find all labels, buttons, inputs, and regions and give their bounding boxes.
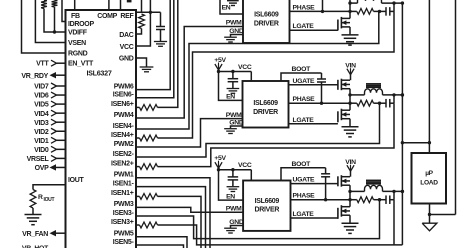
- wire GND: [136, 58, 147, 67]
- svg-text:PHASE: PHASE: [293, 4, 316, 11]
- ground REF cap: [154, 41, 167, 43]
- svg-text:OVP: OVP: [35, 165, 50, 172]
- wire return: [430, 214, 456, 216]
- wire lower source C: [349, 215, 351, 223]
- svg-text:VID7: VID7: [34, 84, 49, 91]
- svg-text:VRSEL: VRSEL: [27, 156, 50, 163]
- wire: [44, 9, 66, 33]
- wire ISEN3+ to phase C sense: [158, 225, 403, 245]
- wire ISEN5-: [136, 245, 184, 248]
- wire VCC B: [219, 71, 252, 73]
- svg-text:VCC: VCC: [238, 162, 252, 169]
- svg-text:VID6: VID6: [34, 93, 49, 100]
- capacitor bootstrap C: [325, 168, 327, 174]
- resistor ISEN3+: [136, 224, 140, 226]
- svg-text:ISEN4-: ISEN4-: [113, 123, 135, 130]
- svg-text:UGATE: UGATE: [293, 78, 316, 85]
- junction blob at top edge: [127, 0, 132, 2]
- svg-text:ISEN1-: ISEN1-: [113, 180, 135, 187]
- sense capacitor B: [385, 99, 387, 108]
- ground lower MOSFET A: [342, 34, 359, 36]
- ground VCC cap A (cut): [227, 0, 239, 2]
- svg-text:VR_FAN: VR_FAN: [22, 231, 48, 238]
- ground lower MOSFET B: [342, 126, 359, 128]
- sense resistor C: [350, 199, 357, 201]
- svg-text:LOAD: LOAD: [420, 180, 438, 187]
- wire FB top: [74, 0, 76, 10]
- wire PWM1: [136, 178, 210, 248]
- resistor ISEN1+: [136, 195, 140, 197]
- upper MOSFET C: [337, 176, 339, 186]
- phase node column C: [349, 185, 351, 207]
- phase node column B: [349, 89, 351, 111]
- wire return rail: [455, 0, 457, 215]
- svg-text:ISEN3+: ISEN3+: [111, 219, 134, 226]
- svg-text:GND: GND: [229, 219, 244, 226]
- driver C ISL6609: [243, 181, 290, 231]
- svg-text:PWM4: PWM4: [114, 112, 134, 119]
- resistor ISEN2+: [136, 166, 140, 168]
- wire GND C: [231, 226, 244, 228]
- wire PWM6: [136, 0, 170, 90]
- svg-text:LGATE: LGATE: [293, 211, 315, 218]
- ground C: [224, 227, 237, 229]
- svg-text:PWM6: PWM6: [114, 83, 134, 90]
- svg-text:IOUT: IOUT: [68, 177, 85, 184]
- capacitor REF: [160, 12, 162, 26]
- svg-text:UGATE: UGATE: [293, 177, 316, 184]
- svg-text:EN: EN: [222, 5, 231, 12]
- inductor C: [350, 190, 365, 192]
- svg-text:+5V: +5V: [214, 57, 226, 64]
- svg-text:VTT: VTT: [36, 61, 49, 68]
- wire VCORE rail: [401, 3, 403, 245]
- svg-text:BOOT: BOOT: [292, 66, 312, 73]
- svg-text:DRIVER: DRIVER: [254, 21, 279, 28]
- svg-text:VID3: VID3: [34, 120, 49, 127]
- svg-text:PWM: PWM: [226, 205, 242, 212]
- phase node column A: [349, 0, 351, 18]
- sense capacitor A: [385, 7, 387, 16]
- svg-text:PHASE: PHASE: [293, 193, 316, 200]
- lower MOSFET C: [337, 208, 339, 219]
- inductor A: [350, 2, 358, 4]
- load uP LOAD: [412, 153, 447, 204]
- svg-text:RGND: RGND: [68, 51, 88, 58]
- svg-text:DRIVER: DRIVER: [254, 206, 279, 213]
- sense resistor A: [350, 10, 357, 12]
- wire ISEN3- to phase C sense: [136, 200, 380, 239]
- svg-text:BOOT: BOOT: [292, 161, 312, 168]
- svg-text:PWM3: PWM3: [114, 201, 134, 208]
- svg-text:VID5: VID5: [34, 102, 49, 109]
- ground RIOUT: [25, 214, 42, 216]
- wire load bottom: [429, 204, 431, 224]
- wire RGND sense line: [22, 0, 66, 53]
- wire ISEN4+ to phase A sense: [158, 11, 395, 138]
- svg-text:VID4: VID4: [34, 111, 49, 118]
- capacitor bootstrap A (cut): [322, 0, 324, 11]
- svg-text:ISEN2+: ISEN2+: [111, 160, 134, 167]
- svg-text:PHASE: PHASE: [293, 96, 316, 103]
- wire EN B: [219, 72, 243, 101]
- svg-text:FB: FB: [71, 13, 80, 20]
- resistor droop R (cut at top): [52, 0, 58, 7]
- svg-text:EN: EN: [226, 94, 235, 101]
- wire ISEN4- to phase A sense: [136, 11, 379, 129]
- sense node B: [378, 102, 381, 105]
- svg-text:LGATE: LGATE: [293, 23, 315, 30]
- svg-text:VDIFF: VDIFF: [68, 30, 88, 37]
- svg-text:GND: GND: [119, 55, 134, 62]
- svg-text:ISEN2-: ISEN2-: [113, 151, 135, 158]
- svg-text:ISL6609: ISL6609: [255, 198, 280, 205]
- capacitor bootstrap B: [321, 73, 323, 79]
- controller U1 ISL6327: [66, 10, 137, 248]
- wire IDROOP: [62, 0, 66, 22]
- wire UGATE B: [289, 84, 338, 86]
- ground VCC cap C: [227, 186, 240, 188]
- wire REF: [136, 11, 161, 13]
- svg-text:IOUT: IOUT: [44, 197, 55, 203]
- upper MOSFET B: [337, 80, 339, 90]
- wire LGATE A: [290, 29, 338, 31]
- driver B ISL6609: [243, 81, 289, 128]
- svg-text:GND: GND: [229, 120, 244, 127]
- inductor B: [350, 94, 365, 96]
- svg-text:VCC: VCC: [120, 44, 134, 51]
- svg-text:DAC: DAC: [119, 32, 134, 39]
- wire GND A: [231, 35, 244, 37]
- wire cap to inductor B: [393, 95, 395, 103]
- wire load feed: [428, 0, 430, 153]
- wire LGATE B: [289, 123, 338, 125]
- ground B: [224, 128, 237, 130]
- svg-text:VSEN: VSEN: [68, 40, 86, 47]
- svg-text:ISEN3-: ISEN3-: [113, 210, 135, 217]
- wire phase C cap to wrap: [393, 200, 395, 245]
- svg-text:VID1: VID1: [34, 138, 49, 145]
- wire VCC C: [219, 169, 252, 171]
- wire cap to inductor C: [393, 191, 395, 199]
- svg-text:IDROOP: IDROOP: [68, 21, 94, 28]
- svg-text:COMP: COMP: [97, 13, 117, 20]
- wire ISEN6-: [136, 0, 174, 98]
- wire PHASE B: [289, 102, 351, 104]
- svg-text:ISEN5-: ISEN5-: [113, 239, 135, 246]
- svg-text:ISEN6+: ISEN6+: [111, 101, 134, 108]
- wire: [32, 208, 34, 214]
- wire COMP top: [108, 0, 110, 10]
- wire cap to inductor A: [393, 3, 395, 11]
- svg-text:DRIVER: DRIVER: [253, 109, 278, 116]
- resistor RIOUT: [30, 190, 36, 209]
- wire lower source A: [349, 27, 351, 35]
- svg-text:+5V: +5V: [214, 155, 226, 162]
- wire rail to load top: [402, 142, 429, 144]
- svg-text:VID2: VID2: [34, 129, 49, 136]
- svg-text:GND: GND: [229, 28, 244, 35]
- wire PWM3 to driver C: [136, 207, 243, 212]
- resistor ISEN4+: [136, 137, 140, 139]
- wire PWM5: [136, 237, 187, 248]
- node: [149, 11, 152, 14]
- wire EN A (cut): [220, 0, 243, 14]
- wire ISEN2+ to phase B sense: [158, 103, 395, 166]
- wire UGATE C: [291, 183, 338, 185]
- wire PWM4 to driver A: [136, 27, 243, 119]
- ground A: [224, 36, 237, 38]
- resistor ISEN6+: [136, 106, 140, 108]
- svg-text:ISL6609: ISL6609: [254, 12, 279, 19]
- ground GND pin: [140, 66, 154, 68]
- svg-text:EN: EN: [226, 193, 235, 200]
- wire IOUT: [33, 185, 66, 190]
- wire DAC: [136, 29, 142, 35]
- wire +5V to VCC: [136, 0, 150, 46]
- wire: [54, 7, 56, 32]
- svg-text:ISL6609: ISL6609: [253, 100, 278, 107]
- ground lower MOSFET C: [342, 222, 359, 224]
- ground VCC cap B: [227, 88, 240, 90]
- wire VSEN sense line: [35, 0, 65, 43]
- svg-text:VR_RDY: VR_RDY: [21, 73, 48, 80]
- capacitor VCC C: [231, 168, 234, 171]
- lower MOSFET A: [337, 20, 339, 31]
- wire BOOT C: [281, 168, 326, 181]
- wire ISEN2- to phase B sense: [136, 103, 380, 157]
- sense node A: [378, 10, 381, 13]
- svg-text:ISL6327: ISL6327: [86, 69, 111, 78]
- ground return (open triangle): [422, 223, 437, 231]
- sense node C: [378, 198, 381, 201]
- wire BOOT B: [281, 73, 322, 81]
- svg-text:REF: REF: [120, 13, 134, 20]
- wire ISEN1-: [136, 187, 206, 248]
- svg-text:PWM: PWM: [226, 20, 242, 27]
- wire PWM2 to driver B: [136, 119, 243, 147]
- resistor feedback R (cut at top): [41, 0, 47, 9]
- svg-text:PWM5: PWM5: [114, 231, 134, 238]
- wire PHASE C: [291, 199, 351, 201]
- wire EN C: [219, 170, 244, 200]
- driver A ISL6609: [243, 0, 290, 43]
- wire GND B: [231, 126, 243, 128]
- svg-text:R: R: [38, 194, 43, 201]
- svg-text:VID0: VID0: [34, 147, 49, 154]
- wire ISEN6+: [158, 0, 178, 107]
- capacitor VCC B: [231, 70, 234, 73]
- wire PHASE A: [290, 10, 351, 12]
- svg-text:µP: µP: [425, 170, 433, 177]
- svg-text:PWM2: PWM2: [114, 141, 134, 148]
- wire REF resistor top (cut): [141, 0, 143, 13]
- svg-text:PWM1: PWM1: [114, 172, 134, 179]
- wire LGATE C: [291, 217, 338, 219]
- sense capacitor C: [385, 195, 387, 204]
- svg-text:ISEN1+: ISEN1+: [111, 190, 134, 197]
- wire lower source B: [349, 119, 351, 127]
- wire REF top: [120, 0, 122, 10]
- svg-text:LGATE: LGATE: [293, 117, 315, 124]
- svg-text:ISEN6-: ISEN6-: [113, 92, 135, 99]
- sense resistor B: [350, 102, 357, 104]
- node junction: [53, 30, 56, 33]
- lower MOSFET B: [337, 111, 339, 122]
- svg-text:PWM: PWM: [226, 112, 242, 119]
- svg-text:ISEN4+: ISEN4+: [111, 132, 134, 139]
- svg-text:VCC: VCC: [238, 64, 252, 71]
- wire ISEN1+: [158, 196, 202, 248]
- resistor REF-DAC: [139, 14, 145, 29]
- svg-text:EN_VTT: EN_VTT: [68, 61, 94, 68]
